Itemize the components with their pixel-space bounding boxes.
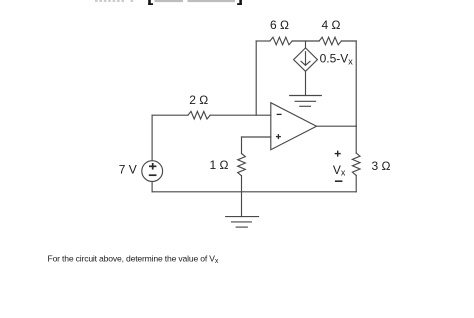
svg-text:0.5-Vx: 0.5-Vx: [320, 51, 354, 66]
resistor 2ohm: [188, 111, 210, 119]
wire stub node B to dependent source: [305, 41, 307, 48]
label Vx plus polarity mark: [335, 151, 341, 157]
svg-text:1 Ω: 1 Ω: [210, 158, 229, 172]
wire top-left vertical (node A down to inverting-input wire): [255, 41, 257, 115]
wire 2ohm to op-amp inverting input: [210, 114, 271, 116]
svg-text:For the circuit above, determi: For the circuit above, determine the val…: [48, 254, 219, 265]
op-amp output wire: [317, 125, 357, 127]
wire bottom rail: [152, 191, 356, 193]
resistor 4ohm: [319, 37, 341, 45]
ground G1 (below dependent source): [290, 96, 322, 107]
wire top horizontal left segment: [256, 40, 270, 42]
cropped bold title text fragment (letter bottoms): [95, 0, 133, 2]
wire bottom node to ground G2: [241, 192, 243, 217]
wire non-inverting node down to 1ohm: [241, 137, 243, 154]
svg-text:7 V: 7 V: [119, 162, 137, 176]
svg-text:6 Ω: 6 Ω: [270, 18, 289, 32]
wire right vertical to 3ohm: [355, 126, 357, 153]
cropped title opening bracket bottom: [148, 0, 153, 5]
ground G2 (below 1ohm node): [226, 217, 259, 228]
wire right vertical upper (top loop down to op-amp output node): [355, 41, 357, 126]
op-amp inverting input minus sign: [277, 113, 282, 115]
resistor 1ohm: [238, 154, 246, 176]
dependent current source 0.5Vx (diamond): [294, 48, 318, 71]
cropped title closing bracket bottom: [237, 0, 242, 5]
wire top horizontal right segment: [341, 40, 356, 42]
svg-text:4 Ω: 4 Ω: [322, 18, 341, 32]
wire 1ohm to bottom rail: [241, 176, 243, 192]
svg-text:3 Ω: 3 Ω: [372, 159, 391, 173]
wire source V1 to bottom rail: [151, 182, 153, 192]
label Vx minus polarity mark: [335, 180, 343, 182]
dependent source arrow (downward): [301, 52, 310, 66]
wire dependent source to ground: [305, 71, 307, 95]
voltage source V1 minus sign: [149, 174, 157, 176]
wire inverting input (left segment from top-left corner): [152, 114, 188, 116]
svg-text:2 Ω: 2 Ω: [189, 93, 208, 107]
op-amp non-inverting input plus sign: [276, 134, 281, 139]
resistor 3ohm: [352, 153, 360, 175]
voltage source V1 plus sign: [149, 163, 156, 170]
voltage source V1 7V circle: [142, 161, 163, 182]
wire left vertical upper (corner down to source V1): [151, 115, 153, 161]
op-amp U1 triangle: [271, 103, 317, 150]
wire 3ohm to bottom-right corner: [355, 175, 357, 191]
resistor 6ohm: [270, 37, 292, 45]
wire non-inverting input horizontal: [242, 136, 271, 138]
wire between 6ohm and 4ohm (junction node B at x=305.5): [292, 40, 319, 42]
